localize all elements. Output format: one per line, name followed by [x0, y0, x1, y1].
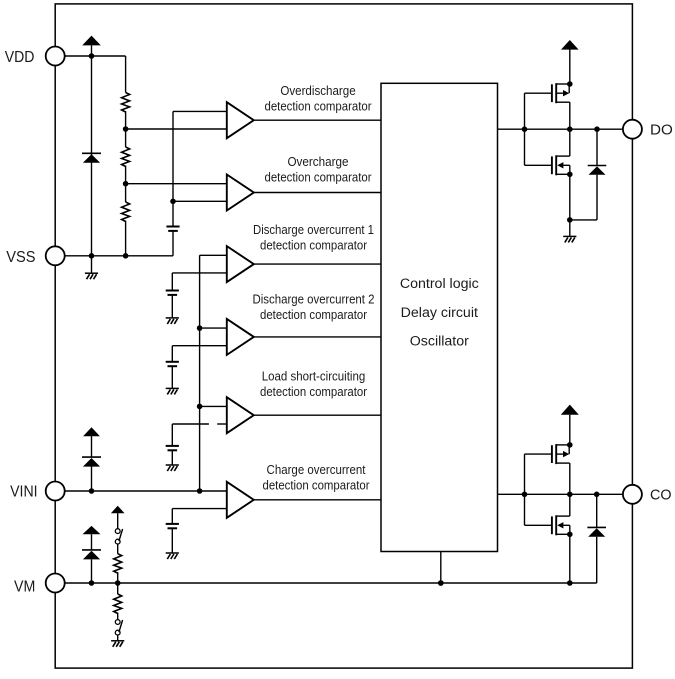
svg-text:Overcharge: Overcharge: [287, 155, 348, 169]
svg-text:detection comparator: detection comparator: [265, 99, 372, 113]
svg-text:Discharge overcurrent 1: Discharge overcurrent 1: [253, 223, 374, 237]
svg-text:Discharge overcurrent 2: Discharge overcurrent 2: [253, 292, 375, 306]
svg-text:VSS: VSS: [6, 249, 35, 266]
svg-text:Load short-circuiting: Load short-circuiting: [262, 369, 366, 383]
svg-text:Charge overcurrent: Charge overcurrent: [267, 463, 366, 477]
svg-text:detection comparator: detection comparator: [260, 239, 367, 253]
svg-text:Oscillator: Oscillator: [410, 333, 469, 349]
svg-text:VM: VM: [14, 578, 35, 595]
svg-text:detection comparator: detection comparator: [263, 479, 370, 493]
svg-text:VINI: VINI: [10, 483, 37, 500]
svg-text:detection comparator: detection comparator: [260, 385, 367, 399]
svg-text:CO: CO: [650, 486, 672, 503]
svg-text:Delay circuit: Delay circuit: [401, 305, 478, 321]
svg-text:Overdischarge: Overdischarge: [280, 84, 355, 98]
svg-text:DO: DO: [650, 121, 673, 138]
svg-text:detection comparator: detection comparator: [260, 308, 367, 322]
svg-text:VDD: VDD: [5, 49, 35, 66]
svg-text:Control logic: Control logic: [400, 276, 479, 292]
svg-text:detection comparator: detection comparator: [265, 170, 372, 184]
